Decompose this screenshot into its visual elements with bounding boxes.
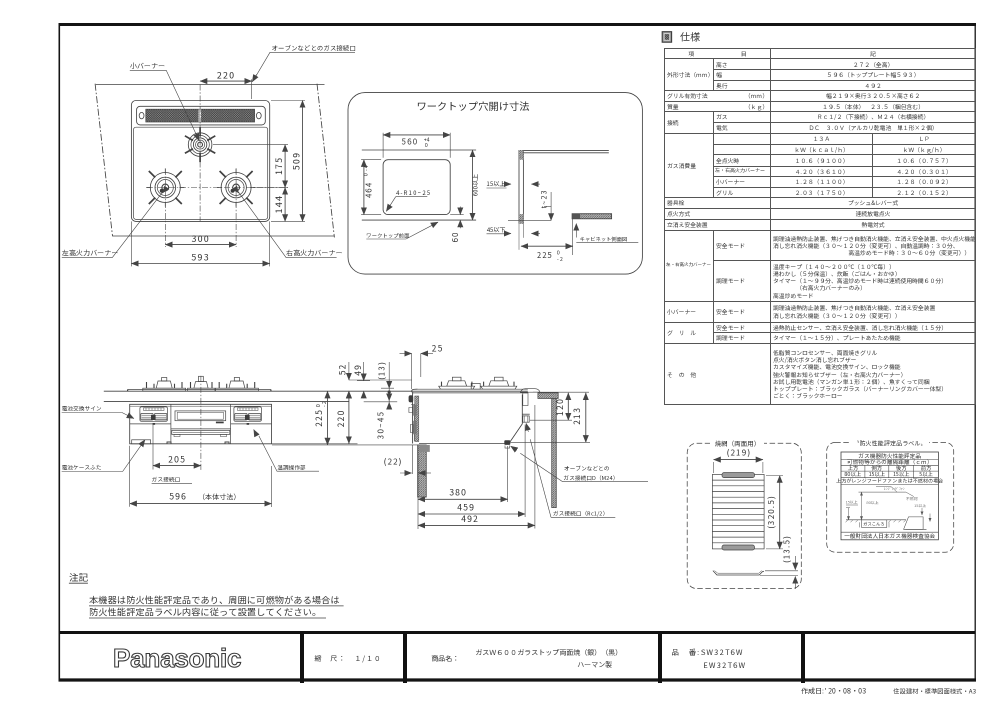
- countertop surface line: [104, 390, 528, 392]
- dimension 560: [383, 133, 450, 158]
- svg-text:15以上: 15以上: [846, 500, 858, 506]
- right high-output burner: [217, 168, 255, 206]
- svg-text:小バーナー: 小バーナー: [130, 61, 166, 71]
- svg-text:144: 144: [272, 195, 285, 214]
- svg-text:作成日:' 20・08・03: 作成日:' 20・08・03: [801, 687, 866, 697]
- label row lines: [841, 460, 938, 533]
- label gas inlet: [152, 476, 192, 484]
- cooking surface inner rect: [134, 127, 268, 219]
- cabinet top bar: [572, 214, 612, 219]
- label temp control: [254, 430, 319, 472]
- top plate profile: [128, 389, 271, 391]
- counter top double line: [523, 150, 608, 152]
- cabinet wall right (hatched): [552, 399, 557, 508]
- dimension 220: [200, 69, 252, 100]
- svg-text:ガスこんろ: ガスこんろ: [863, 522, 884, 528]
- centerline left burner vertical: [164, 169, 166, 247]
- label battery case lid: [62, 440, 145, 472]
- mini diagram in label: [846, 486, 931, 529]
- knob row bottom left: [130, 423, 171, 425]
- rear gas fitting Rc1/2: [522, 414, 529, 422]
- svg-text:ガス接続口: ガス接続口: [152, 476, 181, 484]
- oven shape right: [904, 517, 924, 529]
- dimension 225 0/-2 vertical: [272, 391, 418, 445]
- title block: [59, 631, 975, 684]
- svg-text:25: 25: [432, 343, 444, 355]
- knob row bottom right: [231, 423, 272, 425]
- svg-text:Panasonic: Panasonic: [113, 645, 241, 673]
- dim (219): [714, 447, 763, 473]
- svg-text:（本体寸法）: （本体寸法）: [198, 493, 241, 503]
- svg-text:509: 509: [290, 152, 303, 171]
- label header columns: [865, 465, 914, 477]
- svg-text:492: 492: [461, 513, 479, 525]
- dimension 120: [530, 393, 572, 420]
- dashed surround: [827, 437, 954, 552]
- svg-text:175: 175: [272, 157, 285, 176]
- svg-text:220: 220: [335, 410, 347, 428]
- net handle tab bottom: [722, 545, 755, 550]
- dimension 600以上: [471, 150, 480, 220]
- right knob subpanel: [234, 407, 262, 425]
- svg-text:住設建材・標準図面様式・A3: 住設建材・標準図面様式・A3: [893, 687, 976, 696]
- grate right: [216, 378, 259, 392]
- svg-text:459: 459: [457, 502, 475, 514]
- grate left: [143, 378, 186, 392]
- dimension 60: [450, 207, 464, 243]
- label texts: [836, 452, 944, 540]
- svg-text:オーブンなどとのガス接続口: オーブンなどとのガス接続口: [272, 43, 356, 52]
- dimension 593: [131, 221, 269, 266]
- countertop lower line: [104, 401, 349, 403]
- dimension 205: [153, 425, 201, 470]
- dimension 492: [418, 405, 535, 529]
- worktop edge section: double vertical line: [519, 150, 523, 224]
- label small burner: [130, 61, 199, 141]
- stove box: [862, 520, 887, 528]
- svg-text:120: 120: [554, 398, 566, 416]
- svg-text:ﾚﾝｼﾞﾌｰﾄﾞﾌｧﾝ: ﾚﾝｼﾞﾌｰﾄﾞﾌｧﾝ: [884, 486, 905, 492]
- label outer box: [841, 452, 938, 540]
- label gas connection Rc1/2: [526, 423, 615, 517]
- battery case lid: [132, 440, 151, 444]
- label oven gas connection: [252, 43, 356, 82]
- divider 2: [403, 634, 407, 684]
- dimension 15以上: [487, 179, 541, 188]
- divider 4: [801, 634, 805, 684]
- centerline burners horizontal: [147, 187, 288, 189]
- svg-text:温調操作部: 温調操作部: [277, 464, 306, 472]
- bottom panel edge extension: [272, 443, 358, 445]
- counter bottom line: [508, 219, 551, 221]
- panel top edge line: [130, 405, 272, 407]
- svg-text:右高火力バーナー: 右高火力バーナー: [286, 248, 343, 258]
- dimension 380: [418, 446, 508, 529]
- dimension 30~45: [364, 394, 398, 439]
- svg-text:4-R10~25: 4-R10~25: [396, 188, 431, 197]
- part number cell: [671, 647, 743, 658]
- exhaust grille mesh: [146, 109, 255, 122]
- left knob subpanel: [140, 407, 168, 425]
- svg-text:225: 225: [313, 409, 325, 427]
- centerline small burner vertical: [199, 85, 201, 222]
- svg-text:464: 464: [364, 182, 375, 198]
- svg-text:205: 205: [168, 454, 186, 466]
- dimension (22): [383, 445, 431, 474]
- bottom gas fitting M24: [504, 440, 510, 448]
- svg-text:225: 225: [537, 250, 553, 261]
- svg-text:ワークトップ前面: ワークトップ前面: [366, 231, 409, 239]
- svg-text:注記: 注記: [69, 570, 88, 584]
- dimension (13): [377, 361, 395, 404]
- svg-text:0: 0: [425, 142, 429, 149]
- product name cell: [431, 654, 459, 664]
- igniter housing mid: [471, 383, 480, 389]
- dimension 49: [352, 362, 370, 398]
- dimension 213: [511, 393, 591, 442]
- dimension 464: [361, 160, 381, 215]
- body bottom: [419, 443, 509, 445]
- svg-text:0: 0: [363, 172, 370, 176]
- countertop back edge: [96, 84, 325, 86]
- dimension 220 vertical: [335, 391, 349, 443]
- grill net top view: [712, 474, 764, 549]
- svg-text:593: 593: [191, 251, 210, 264]
- svg-text:560: 560: [402, 137, 418, 148]
- svg-text:〝防火性能評定品ラベル〟: 〝防火性能評定品ラベル〟: [853, 439, 926, 448]
- dimension t~23: [540, 189, 552, 220]
- dimension 52: [337, 362, 413, 398]
- svg-text:52: 52: [337, 364, 349, 376]
- grill door: [171, 429, 231, 437]
- svg-text:60: 60: [450, 232, 461, 243]
- divider 1: [300, 634, 304, 684]
- svg-text:上方がレンジフードファンまたは不燃材の場合: 上方がレンジフードファンまたは不燃材の場合: [836, 478, 944, 485]
- spec table: [664, 48, 975, 405]
- label battery sign: [62, 405, 134, 419]
- grille screw right: [256, 112, 261, 118]
- svg-text:オーブンなどとの: オーブンなどとの: [564, 464, 610, 472]
- svg-text:380: 380: [449, 487, 467, 499]
- svg-text:300: 300: [190, 232, 210, 245]
- svg-text:15以上: 15以上: [914, 503, 926, 509]
- top plate outline: [131, 101, 269, 222]
- svg-text:(13): (13): [377, 361, 388, 380]
- centerline right burner vertical: [235, 169, 237, 247]
- dimension 225 0/-2: [521, 246, 573, 263]
- divider 3: [658, 634, 662, 684]
- bottom tick marks: [167, 442, 229, 444]
- dimension 175: [213, 145, 288, 188]
- svg-text:15以上: 15以上: [487, 179, 506, 188]
- side grate burner front: [439, 377, 475, 389]
- dimension 25: [400, 343, 444, 390]
- svg-text:(219): (219): [727, 447, 752, 458]
- svg-text:-4: -4: [363, 164, 370, 171]
- svg-text:t~23: t~23: [540, 189, 550, 208]
- front panel outline: [130, 404, 272, 444]
- svg-text:(13.5): (13.5): [782, 535, 793, 563]
- countertop break line left: [95, 84, 112, 236]
- svg-text:-2: -2: [557, 256, 564, 263]
- svg-text:220: 220: [217, 69, 236, 82]
- front face and knobs profile: [409, 393, 419, 444]
- svg-text:ワークトップ穴開け寸法: ワークトップ穴開け寸法: [416, 98, 529, 113]
- svg-text:可燃物等からの離隔距離（ｃｍ）: 可燃物等からの離隔距離（ｃｍ）: [847, 458, 932, 466]
- label right burner: [235, 188, 343, 259]
- svg-text:596: 596: [169, 491, 187, 503]
- dimension 596: [130, 446, 272, 507]
- body back slant: [509, 395, 522, 444]
- cutout rectangle: [383, 160, 450, 215]
- center dashed line: [200, 376, 202, 472]
- dim (13.5): [760, 535, 798, 589]
- scale cell: [314, 654, 382, 664]
- dimension 459: [418, 425, 525, 518]
- svg-text:電池交換サイン: 電池交換サイン: [62, 405, 102, 413]
- label 4-R10~25: [386, 188, 431, 211]
- svg-text:30~45: 30~45: [376, 411, 387, 439]
- svg-text:49: 49: [352, 364, 364, 376]
- svg-text:(22): (22): [383, 457, 402, 468]
- side grate burner rear: [481, 377, 517, 389]
- svg-text:一般財団法人日本ガス機器検査協会: 一般財団法人日本ガス機器検査協会: [844, 532, 935, 540]
- left high-output burner: [146, 168, 184, 206]
- svg-text:左高火力バーナー: 左高火力バーナー: [61, 248, 119, 258]
- grate center: [188, 376, 215, 391]
- exhaust grille surround: [137, 106, 266, 125]
- dimension 144: [272, 188, 285, 222]
- counter slab right (hatched): [538, 393, 558, 399]
- svg-text:キャビネット側面図: キャビネット側面図: [580, 236, 628, 243]
- label cabinet side view: [576, 224, 638, 244]
- dimension 45以下: [487, 224, 541, 250]
- Panasonic logo: [112, 645, 252, 673]
- section divider right: [230, 404, 232, 444]
- dashed surround: [687, 438, 801, 589]
- rear hose cover bump: [521, 389, 590, 406]
- net handle tab top: [722, 473, 755, 478]
- svg-text:-2: -2: [321, 400, 328, 407]
- worktop front line: [362, 219, 476, 221]
- worktop edge hatch top: [519, 150, 523, 160]
- svg-text:仕様: 仕様: [680, 29, 700, 44]
- top plate side profile: [412, 389, 528, 393]
- svg-text:213: 213: [571, 407, 583, 425]
- svg-text:ガス接続口（Rc1/2）: ガス接続口（Rc1/2）: [553, 510, 608, 518]
- cabinet side vertical: [572, 219, 574, 255]
- small burner: [185, 127, 215, 162]
- dimension 300: [165, 232, 236, 245]
- display window: [175, 411, 226, 423]
- label worktop front: [366, 222, 438, 239]
- svg-text:45以下: 45以下: [487, 225, 506, 234]
- grille screw left: [139, 112, 144, 118]
- svg-text:不燃材: 不燃材: [905, 496, 919, 502]
- dimension 509: [271, 101, 305, 222]
- dim (320.5): [766, 476, 783, 549]
- worktop edge hatch bottom: [519, 214, 523, 224]
- worktop back line: [362, 149, 476, 151]
- svg-text:電池ケースふた: 電池ケースふた: [62, 464, 102, 472]
- label left burner: [61, 188, 167, 259]
- svg-text:80以上: 80以上: [867, 500, 879, 506]
- cabinet front panel left (hatched): [418, 445, 430, 497]
- countertop front edge: [112, 235, 334, 237]
- svg-text:600以上: 600以上: [471, 174, 480, 197]
- svg-text:(320.5): (320.5): [766, 495, 777, 529]
- section divider left: [170, 404, 172, 444]
- net side profile: [713, 571, 764, 575]
- countertop break line right: [317, 84, 334, 238]
- svg-text:ガス接続口D（M24）: ガス接続口D（M24）: [564, 474, 619, 482]
- svg-text:防火性能評定品ラベル内容に従って設置してください。: 防火性能評定品ラベル内容に従って設置してください。: [89, 605, 321, 619]
- panel border: [348, 93, 642, 275]
- label oven gas connection M24: [511, 446, 648, 482]
